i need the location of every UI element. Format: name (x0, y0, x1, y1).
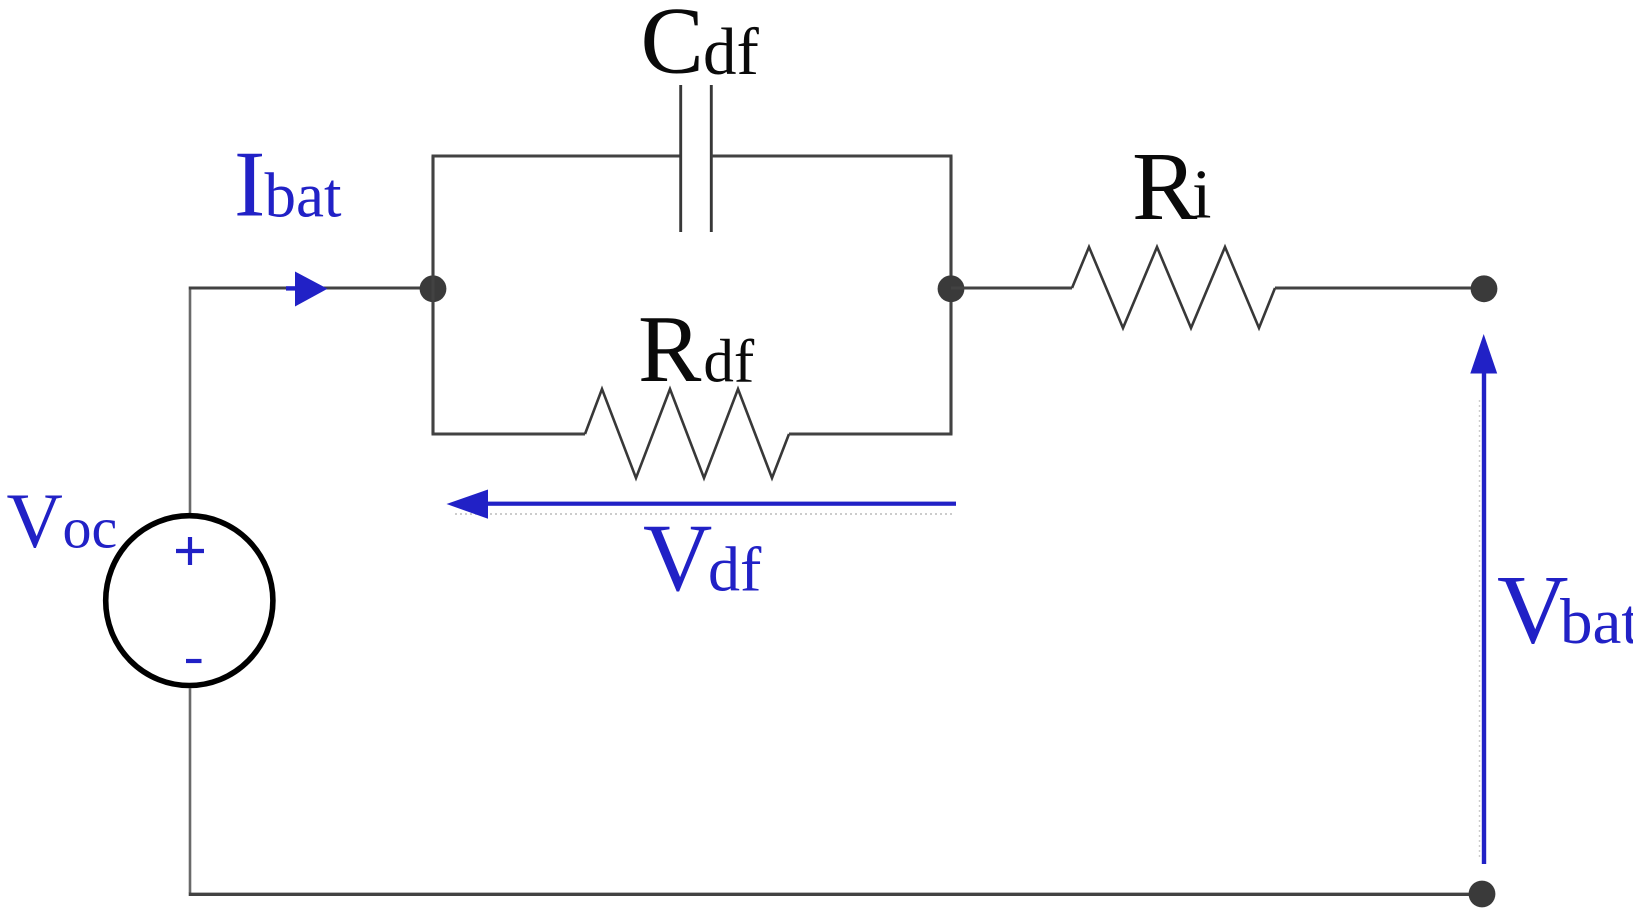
minus sign of source (186, 659, 202, 663)
wire from source bottom down to bottom rail (189, 688, 192, 893)
wire bottom branch left (432, 433, 586, 436)
label Vdf (643, 504, 762, 611)
label Ibat (234, 133, 342, 237)
svg-text:df: df (703, 329, 755, 396)
current arrow Ibat (286, 272, 328, 307)
svg-text:V: V (643, 504, 712, 611)
capacitor Cdf plates (681, 85, 712, 232)
label Cdf (641, 0, 760, 94)
bottom rail wire (189, 893, 1482, 896)
svg-text:i: i (1192, 157, 1211, 234)
plus sign of source (176, 537, 204, 565)
svg-text:df: df (703, 15, 760, 89)
label Vbat (1497, 556, 1633, 665)
svg-text:R: R (638, 296, 702, 402)
node C (output top dot) (1471, 275, 1498, 302)
svg-text:V: V (7, 477, 63, 564)
label Ri (1132, 133, 1211, 241)
wire top branch left (432, 155, 682, 158)
resistor Ri zigzag (1072, 247, 1275, 328)
label Rdf (638, 296, 755, 402)
svg-text:bat: bat (265, 161, 342, 231)
svg-text:V: V (1497, 556, 1569, 665)
svg-text:bat: bat (1560, 586, 1633, 658)
resistor Rdf zigzag (585, 389, 789, 478)
node B (right junction dot) (938, 275, 965, 302)
voltage source U1 circle (106, 516, 273, 686)
svg-text:oc: oc (63, 496, 118, 561)
svg-text:R: R (1132, 133, 1198, 241)
wire from corner to node A (189, 286, 433, 289)
wire from source top up to main wire (189, 290, 192, 515)
wire from resistor Ri to node C (1275, 287, 1484, 290)
wire right vertical of parallel block (949, 156, 952, 434)
wire bottom branch right (789, 433, 953, 436)
label Voc (7, 477, 118, 564)
svg-text:df: df (708, 534, 762, 605)
voltage arrow Vbat shadow (1479, 400, 1481, 860)
node D (output bottom dot) (1469, 881, 1496, 908)
voltage arrow Vdf (447, 490, 957, 519)
svg-text:C: C (641, 0, 704, 94)
node A (left junction dot) (420, 275, 447, 302)
svg-text:I: I (234, 133, 265, 237)
wire top branch right (711, 155, 952, 158)
wire from node B to resistor Ri (951, 287, 1072, 290)
voltage arrow Vdf shadow (455, 513, 953, 515)
voltage arrow Vbat (1470, 334, 1497, 864)
wire left vertical of parallel block (431, 156, 434, 434)
